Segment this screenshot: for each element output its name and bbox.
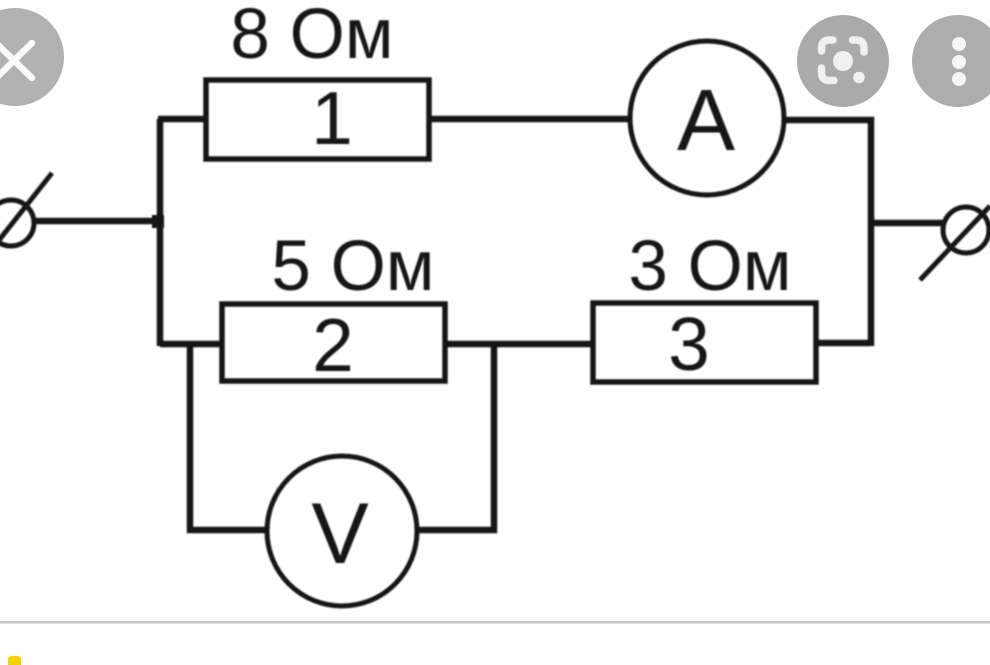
wire voltmeter branch left vertical (187, 344, 194, 533)
svg-text:A: A (677, 72, 735, 169)
svg-text:V: V (311, 486, 368, 582)
wire right vertical (868, 117, 875, 346)
wire voltmeter branch right vertical (491, 344, 498, 533)
wire voltmeter right (416, 527, 497, 534)
voltmeter V (267, 456, 417, 606)
svg-text:8 Ом: 8 Ом (230, 0, 393, 74)
lens button (797, 15, 889, 107)
wire left stub (32, 218, 160, 225)
wire R1 to ammeter (429, 116, 630, 123)
ammeter A (630, 41, 784, 195)
separator (0, 621, 990, 624)
wire left vertical (157, 119, 164, 346)
svg-text:2: 2 (312, 303, 354, 387)
left terminal (0, 173, 52, 249)
resistor R1 (206, 80, 429, 159)
resistor R2 (222, 304, 445, 381)
close button (0, 8, 64, 106)
menu button (912, 15, 990, 107)
node junction (152, 215, 164, 228)
svg-text:5 Ом: 5 Ом (271, 227, 434, 306)
wire ammeter to right corner (784, 117, 874, 124)
wire R2 to R3 (445, 341, 593, 348)
wire to R2 (160, 341, 222, 348)
right terminal (920, 206, 990, 280)
svg-text:3: 3 (668, 302, 710, 386)
yellow logo fragment (8, 656, 21, 665)
wire R3 to right vertical (816, 340, 871, 347)
wire to voltmeter left (187, 527, 268, 534)
svg-text:3 Ом: 3 Ом (628, 227, 791, 306)
svg-text:1: 1 (311, 76, 353, 160)
wire to R1 (158, 116, 206, 123)
wire right stub (871, 220, 945, 227)
resistor R3 (593, 303, 816, 382)
